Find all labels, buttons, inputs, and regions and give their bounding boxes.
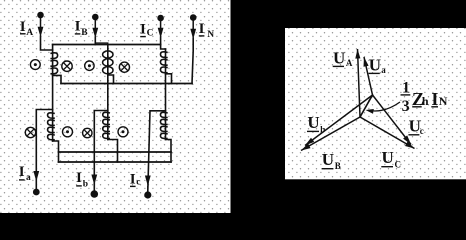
current arrow I_N into node N	[192, 18, 194, 31]
wire winding B bottom to neutral bus	[108, 75, 114, 83]
polarity mark dot (phase b right)	[118, 127, 128, 137]
node N terminal dot	[190, 14, 197, 21]
node B terminal dot	[92, 14, 99, 21]
wire phase A vertical conductor	[52, 45, 54, 142]
polarity mark cross (phase B right)	[119, 62, 129, 72]
wire winding b top bracket to terminal b	[94, 111, 108, 191]
polarity mark dot (phase a right)	[63, 127, 73, 137]
svg-text:c: c	[136, 178, 140, 188]
svg-text:U: U	[307, 113, 319, 132]
svg-text:C: C	[395, 160, 402, 170]
svg-text:a: a	[26, 173, 31, 183]
wire from node B down to top bus	[94, 37, 96, 45]
svg-text:U: U	[369, 55, 381, 74]
winding b secondary (4 turns)	[103, 112, 110, 117]
svg-text:C: C	[147, 29, 154, 39]
node b terminal dot	[91, 190, 99, 198]
wire winding A bottom to neutral bus	[53, 75, 61, 83]
svg-text:3: 3	[402, 98, 410, 115]
phasor U_b	[305, 95, 373, 146]
wire step from bus to winding CZ	[161, 45, 166, 50]
node C terminal dot	[157, 15, 164, 22]
node O neutral origin to node O-prime displaced neutral segment (1/3 Zh IN drop)	[360, 95, 373, 117]
current arrow I_C into node C	[160, 18, 162, 29]
secondary neutral bus wire lower	[59, 161, 172, 163]
wire winding C bottom to neutral bus	[166, 74, 172, 84]
wire winding a bottom to secondary neutral	[53, 141, 59, 162]
phasor U_c	[373, 95, 412, 145]
svg-text:B: B	[335, 161, 341, 171]
current arrow I_c out of terminal c	[145, 176, 151, 187]
winding c secondary (4 turns)	[160, 112, 167, 117]
polarity mark dot (phase A left)	[30, 60, 40, 70]
wire winding a top bracket to terminal a	[36, 110, 52, 189]
svg-text:a: a	[381, 65, 386, 75]
svg-text:I: I	[199, 21, 205, 37]
svg-text:1: 1	[402, 79, 410, 96]
svg-text:I: I	[140, 21, 146, 37]
svg-text:I: I	[20, 19, 26, 35]
svg-text:c: c	[420, 126, 424, 136]
node c terminal dot	[144, 191, 151, 198]
svg-text:A: A	[346, 58, 353, 68]
svg-text:N: N	[207, 30, 214, 40]
polarity mark cross (phase A right)	[62, 61, 72, 71]
svg-text:A: A	[26, 28, 33, 38]
current arrow I_a out of terminal a	[33, 171, 39, 182]
wire winding c top bracket to terminal c	[148, 111, 166, 191]
wire winding c bottom to secondary neutral	[166, 140, 172, 163]
current arrow I_A into node A	[40, 15, 42, 28]
current arrow I_b out of terminal b	[91, 175, 97, 186]
svg-text:b: b	[83, 180, 88, 190]
primary neutral bus wire to node N	[61, 83, 192, 85]
winding a secondary (4 turns)	[48, 113, 55, 118]
svg-text:I: I	[431, 89, 438, 109]
wire from node A down and right to winding AX	[41, 36, 53, 50]
svg-text:U: U	[333, 48, 345, 67]
wire from node N down to primary neutral bus	[192, 38, 193, 84]
winding A primary (3 turns)	[50, 53, 57, 59]
svg-text:I: I	[130, 171, 136, 187]
wire from node C down to top bus end	[160, 37, 162, 45]
left schematic panel background	[0, 0, 231, 213]
secondary neutral bus wire upper	[59, 151, 172, 153]
phasor U_a	[364, 57, 373, 95]
svg-text:I: I	[75, 19, 81, 35]
svg-text:b: b	[320, 125, 325, 135]
wire step from node B joint to winding BY	[95, 43, 108, 45]
svg-text:I: I	[19, 164, 25, 180]
winding B primary (3 turns)	[103, 51, 113, 58]
phasor U_A	[358, 49, 361, 117]
top bus wire A-B-C	[53, 44, 161, 46]
svg-text:I: I	[76, 170, 82, 186]
winding C primary (3 turns)	[160, 52, 167, 58]
svg-text:U: U	[322, 150, 334, 169]
wire phase C vertical conductor	[165, 49, 167, 140]
node a terminal dot	[33, 189, 40, 196]
svg-text:U: U	[382, 148, 394, 167]
wire phase B vertical conductor	[107, 45, 109, 140]
wire winding b bottom to secondary neutral	[108, 140, 118, 163]
current arrow I_B into node B	[94, 17, 96, 29]
node A terminal dot	[37, 12, 44, 19]
polarity mark dot (phase B left)	[85, 61, 94, 70]
annotation arrow pointing to neutral-shift segment	[368, 102, 400, 111]
svg-text:B: B	[81, 28, 88, 38]
svg-text:h: h	[422, 94, 429, 108]
svg-text:N: N	[439, 94, 448, 108]
polarity mark cross (phase b)	[83, 128, 92, 137]
right phasor panel background	[285, 28, 466, 179]
phasor U_B	[301, 117, 360, 151]
polarity mark cross (phase a)	[25, 127, 35, 137]
phasor U_C	[360, 117, 415, 149]
